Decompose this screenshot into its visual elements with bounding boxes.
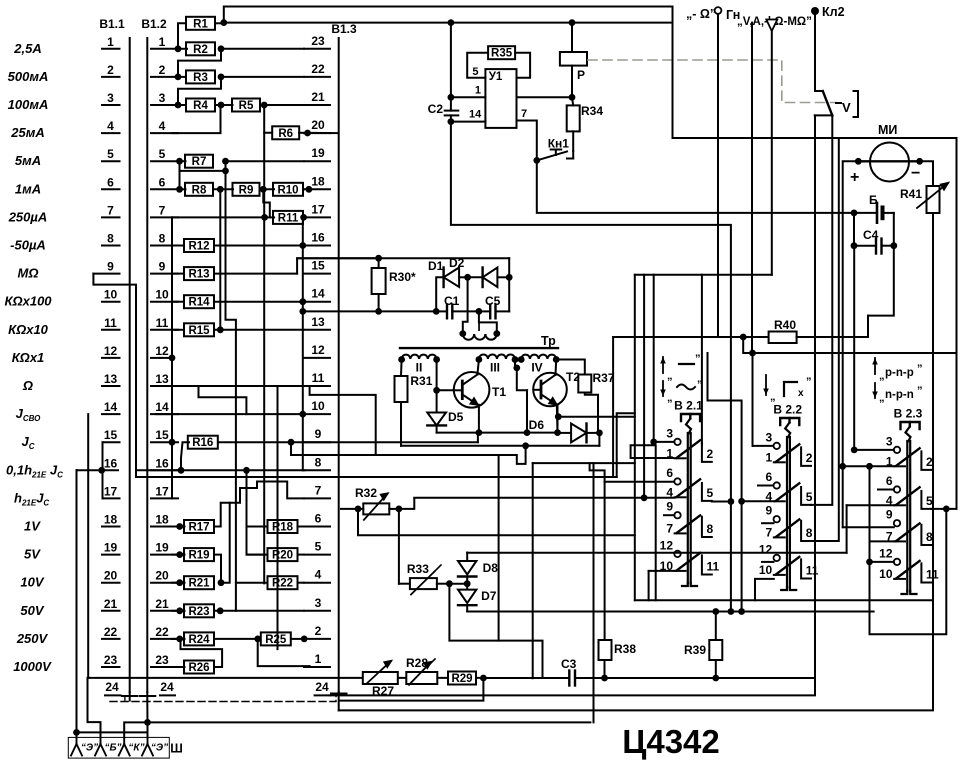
winding II bbox=[398, 355, 440, 375]
wire Б column down bbox=[853, 246, 855, 451]
svg-text:22: 22 bbox=[311, 62, 325, 76]
terminal -Ω Гн bbox=[686, 7, 740, 337]
wire R16 left bend bbox=[178, 442, 189, 473]
switch B1 linkage dashed bbox=[110, 694, 336, 702]
svg-text:“Б”: “Б” bbox=[104, 743, 121, 754]
wire fork2 feed bbox=[88, 678, 101, 738]
svg-text:+: + bbox=[850, 169, 859, 186]
wire B2.3 pin8 link bbox=[931, 544, 933, 546]
wire R11 down bbox=[302, 217, 304, 245]
svg-text:7: 7 bbox=[766, 525, 773, 539]
svg-text:11: 11 bbox=[312, 371, 325, 385]
svg-text:”: ” bbox=[695, 353, 701, 365]
wire V6 long bbox=[263, 133, 265, 584]
connector Ш bbox=[68, 737, 182, 758]
svg-text:D1: D1 bbox=[428, 259, 444, 273]
resistor R1 bbox=[178, 17, 224, 49]
wire R10-R11 gap bbox=[265, 216, 274, 218]
svg-text:21: 21 bbox=[104, 597, 118, 611]
svg-text:Ш: Ш bbox=[170, 742, 183, 756]
wire R5 to R6 bbox=[264, 105, 272, 133]
wire branch pin8 bbox=[673, 138, 957, 541]
svg-text:3: 3 bbox=[107, 91, 114, 105]
svg-text:15: 15 bbox=[155, 428, 169, 442]
wire V1 long bbox=[219, 189, 221, 329]
wire B2.2 pin4 feed bbox=[708, 353, 774, 615]
svg-text:R35: R35 bbox=[491, 48, 513, 60]
svg-text:21: 21 bbox=[311, 90, 325, 104]
resistor R10 bbox=[273, 183, 312, 197]
wire R13 to R30 top bbox=[297, 258, 379, 273]
svg-text:11: 11 bbox=[104, 316, 117, 330]
svg-text:5мА: 5мА bbox=[15, 153, 41, 168]
svg-text:8: 8 bbox=[159, 232, 166, 246]
wire x613 down bbox=[612, 337, 614, 477]
resistor R40 bbox=[613, 316, 868, 343]
svg-text:D2: D2 bbox=[449, 256, 465, 270]
resistor R41 bbox=[900, 183, 948, 213]
svg-text:Тр: Тр bbox=[541, 334, 556, 348]
svg-text:„: „ bbox=[667, 392, 673, 404]
capacitor C3 bbox=[561, 657, 815, 686]
wire line-A bbox=[437, 429, 561, 436]
wire II right down bbox=[436, 360, 438, 391]
svg-text:18: 18 bbox=[155, 513, 169, 527]
svg-text:11: 11 bbox=[156, 316, 169, 330]
wire R32 line bbox=[414, 275, 674, 501]
wire У1 pin7 out bbox=[517, 121, 541, 164]
svg-text:2: 2 bbox=[315, 624, 322, 638]
svg-text:9: 9 bbox=[315, 427, 322, 441]
IC У1 bbox=[469, 66, 527, 128]
svg-text:R17: R17 bbox=[188, 522, 209, 534]
wire battery right bbox=[890, 213, 897, 249]
svg-text:”: ” bbox=[917, 385, 923, 397]
svg-text:9: 9 bbox=[666, 500, 673, 514]
meter МИ bbox=[850, 123, 923, 186]
svg-text:13: 13 bbox=[311, 315, 325, 329]
wire row16 line bbox=[77, 467, 119, 474]
svg-text:23: 23 bbox=[104, 653, 118, 667]
resistor R22 bbox=[236, 576, 304, 590]
svg-text:КΩх100: КΩх100 bbox=[4, 294, 52, 309]
svg-text:Р: Р bbox=[577, 68, 585, 82]
svg-text:50V: 50V bbox=[20, 603, 44, 618]
svg-text:5: 5 bbox=[707, 486, 714, 500]
svg-text:8: 8 bbox=[315, 455, 322, 469]
svg-text:23: 23 bbox=[155, 653, 169, 667]
svg-text:2: 2 bbox=[107, 63, 114, 77]
svg-text:10: 10 bbox=[155, 288, 169, 302]
svg-text:500мА: 500мА bbox=[8, 69, 49, 84]
switch bank B2.3 bbox=[879, 407, 939, 595]
svg-text:3: 3 bbox=[886, 434, 893, 448]
wire switch out bbox=[811, 115, 832, 505]
svg-text:12: 12 bbox=[311, 343, 325, 357]
svg-text:13: 13 bbox=[104, 372, 118, 386]
svg-text:6: 6 bbox=[107, 175, 114, 189]
svg-text:20: 20 bbox=[311, 118, 325, 132]
wire IV to R37 bbox=[556, 360, 585, 375]
svg-text:12: 12 bbox=[660, 538, 674, 552]
resistor R39 bbox=[684, 608, 722, 678]
svg-text:11: 11 bbox=[707, 559, 720, 573]
svg-text:R31: R31 bbox=[410, 374, 432, 388]
svg-text:10V: 10V bbox=[20, 575, 44, 590]
svg-text:В1.1: В1.1 bbox=[99, 17, 125, 31]
svg-text:8: 8 bbox=[707, 522, 714, 536]
svg-text:МΩ: МΩ bbox=[18, 266, 39, 281]
svg-text:I: I bbox=[477, 320, 480, 334]
svg-text:R26: R26 bbox=[188, 662, 209, 674]
svg-text:5: 5 bbox=[926, 494, 933, 508]
svg-text:2: 2 bbox=[806, 451, 813, 465]
svg-text:12: 12 bbox=[104, 344, 118, 358]
svg-text:R18: R18 bbox=[272, 522, 294, 534]
wire B2.2 pin10 hook bbox=[755, 579, 774, 600]
wire B2.1 pin10 bbox=[649, 571, 675, 600]
rotary switch B1.1 bbox=[93, 17, 137, 701]
label Ц4342 bbox=[622, 723, 720, 760]
svg-text:R34: R34 bbox=[581, 104, 603, 118]
capacitor C4 bbox=[851, 213, 894, 254]
wire row14 line bbox=[156, 411, 306, 418]
svg-text:R8: R8 bbox=[192, 184, 207, 196]
svg-text:D5: D5 bbox=[448, 410, 464, 424]
wire R2 jog bbox=[178, 49, 221, 77]
resistor R12 bbox=[172, 239, 306, 253]
svg-text:Ц4342: Ц4342 bbox=[622, 723, 720, 760]
svg-text:7: 7 bbox=[521, 108, 527, 120]
svg-text:КΩх10: КΩх10 bbox=[8, 322, 49, 337]
svg-text:14: 14 bbox=[104, 400, 118, 414]
wire B1.3 bottom bus bbox=[339, 214, 933, 711]
svg-text:17: 17 bbox=[311, 202, 325, 216]
resistor R14 bbox=[172, 295, 306, 309]
resistor R21 bbox=[172, 576, 224, 590]
svg-text:16: 16 bbox=[311, 231, 325, 245]
svg-text:24: 24 bbox=[105, 680, 119, 694]
wire R20 left riser bbox=[243, 467, 267, 555]
wire R38 riser bbox=[604, 482, 606, 640]
resistor R30* bbox=[372, 258, 416, 315]
wire pin7 down bbox=[171, 217, 173, 498]
wire У1 pin1 bbox=[451, 96, 486, 98]
svg-text:D6: D6 bbox=[529, 418, 545, 432]
wire R40 branch bbox=[743, 337, 756, 356]
svg-text:D7: D7 bbox=[481, 589, 497, 603]
winding I bbox=[459, 320, 500, 340]
node III-IV tap bbox=[513, 360, 520, 372]
resistor R13 bbox=[172, 267, 297, 281]
wire mid vertical x277 bbox=[277, 386, 279, 649]
button Кн1 bbox=[537, 137, 573, 161]
wire VA line bbox=[751, 23, 753, 353]
svg-text:6: 6 bbox=[159, 175, 166, 189]
svg-text:R25: R25 bbox=[265, 634, 287, 646]
wire D1D2 to winding I bbox=[463, 277, 468, 333]
svg-text:7: 7 bbox=[315, 483, 322, 497]
wire row17 hook bbox=[102, 470, 104, 498]
svg-text:„: „ bbox=[770, 391, 776, 403]
wire R7L-R8L bbox=[179, 161, 181, 189]
resistor R7 bbox=[176, 155, 304, 169]
wire row15 hook bbox=[102, 442, 104, 470]
svg-text:19: 19 bbox=[311, 146, 325, 160]
resistor R23 bbox=[172, 604, 304, 618]
svg-text:R20: R20 bbox=[272, 550, 293, 562]
svg-text:R1: R1 bbox=[193, 18, 208, 30]
wire У1 right to R34 bbox=[517, 94, 576, 101]
svg-text:11: 11 bbox=[806, 563, 819, 577]
svg-text:х: х bbox=[798, 388, 804, 399]
svg-text:R32: R32 bbox=[355, 486, 377, 500]
svg-text:R9: R9 bbox=[239, 184, 254, 196]
svg-text:C3: C3 bbox=[561, 657, 577, 671]
wire R17 jog bbox=[214, 482, 304, 527]
svg-text:6: 6 bbox=[666, 466, 673, 480]
svg-text:R14: R14 bbox=[188, 297, 210, 309]
resistor R11 bbox=[172, 211, 307, 225]
wire D8 top line bbox=[467, 505, 846, 553]
wire top corner bbox=[572, 7, 673, 23]
svg-text:10: 10 bbox=[759, 563, 773, 577]
resistor R2 bbox=[175, 42, 304, 56]
svg-text:R15: R15 bbox=[188, 325, 210, 337]
resistor R9 bbox=[233, 183, 267, 197]
wire R32 feed bbox=[341, 508, 358, 510]
svg-text:1: 1 bbox=[766, 450, 773, 464]
capacitor C1 bbox=[433, 294, 482, 318]
svg-text:R22: R22 bbox=[272, 578, 293, 590]
svg-text:8: 8 bbox=[926, 530, 933, 544]
wire line-B bbox=[401, 433, 599, 449]
wire tap down bbox=[517, 368, 527, 390]
resistor R28 bbox=[406, 656, 437, 685]
resistor R4 bbox=[175, 99, 225, 113]
wire R32 left down bbox=[358, 509, 635, 535]
svg-text:19: 19 bbox=[155, 541, 169, 555]
resistor R5 bbox=[232, 99, 304, 113]
wire R21 riser bbox=[221, 503, 230, 583]
wire fork1 drop bbox=[73, 470, 80, 738]
wire R32 jog bbox=[399, 498, 414, 509]
svg-text:II: II bbox=[416, 361, 423, 375]
svg-text:1V: 1V bbox=[24, 519, 41, 534]
resistor R27 bbox=[363, 661, 398, 698]
wire R29 hook bbox=[339, 678, 483, 701]
winding III bbox=[476, 354, 519, 374]
wire bus y722 bbox=[148, 721, 591, 723]
relay linkage dashed bbox=[588, 60, 836, 103]
svg-text:R27: R27 bbox=[372, 684, 394, 698]
svg-text:1: 1 bbox=[315, 652, 322, 666]
svg-text:5: 5 bbox=[159, 147, 166, 161]
svg-text:4: 4 bbox=[315, 568, 322, 582]
svg-text:12: 12 bbox=[759, 542, 773, 556]
wire B1.2 bus to fork4 bbox=[144, 701, 151, 738]
svg-text:11: 11 bbox=[926, 567, 939, 581]
relay P bbox=[560, 23, 587, 98]
wire y611 bus bbox=[467, 611, 873, 613]
svg-text:9: 9 bbox=[107, 260, 114, 274]
resistor R29 bbox=[448, 672, 487, 686]
svg-text:14: 14 bbox=[469, 109, 482, 121]
svg-text:6: 6 bbox=[766, 470, 773, 484]
node below R7 bbox=[180, 161, 229, 174]
resistor R17 bbox=[172, 520, 214, 534]
svg-text:D8: D8 bbox=[483, 561, 499, 575]
battery Б bbox=[851, 193, 894, 223]
svg-text:15: 15 bbox=[104, 428, 118, 442]
wire row13 line bbox=[151, 385, 304, 387]
svg-text:−: − bbox=[911, 165, 920, 182]
wire pin4 up bbox=[172, 105, 221, 133]
resistor R26 bbox=[168, 661, 214, 675]
wire R37 bottom jog bbox=[585, 393, 598, 433]
wire R8-R9 bbox=[213, 188, 233, 190]
svg-text:2: 2 bbox=[159, 63, 166, 77]
svg-text:R10: R10 bbox=[277, 184, 298, 196]
switch bank B2.2 bbox=[759, 403, 819, 591]
wire B2.3 pin9 stub bbox=[843, 526, 894, 528]
diode D6 bbox=[529, 418, 603, 442]
svg-text:p-n-p: p-n-p bbox=[885, 367, 914, 379]
capacitor C5 bbox=[479, 277, 509, 318]
diode D7 bbox=[458, 584, 497, 612]
svg-text:21: 21 bbox=[155, 597, 169, 611]
svg-text:24: 24 bbox=[315, 680, 329, 694]
node R30 bottom-left bbox=[299, 308, 306, 315]
svg-text:R37: R37 bbox=[593, 371, 615, 385]
svg-text:1мА: 1мА bbox=[15, 181, 41, 196]
wire D7 branch vert bbox=[498, 455, 500, 641]
svg-text:IV: IV bbox=[531, 361, 542, 375]
wire B2.1 pin3 feed bbox=[650, 275, 674, 446]
svg-text:5: 5 bbox=[472, 66, 478, 78]
wire y600 bus bbox=[635, 599, 933, 601]
wire МΩ row9 hook bbox=[93, 274, 616, 477]
wire y353 to B2.3 pin5 bbox=[753, 352, 957, 354]
wire Кн1 down bbox=[537, 160, 854, 213]
diode D5 bbox=[427, 390, 463, 432]
svg-text:У1: У1 bbox=[489, 71, 503, 83]
svg-text:В 2.2: В 2.2 bbox=[773, 403, 802, 417]
svg-text:24: 24 bbox=[160, 680, 174, 694]
diode D8 bbox=[458, 553, 498, 584]
resistor R16 bbox=[169, 433, 478, 450]
resistor R33 bbox=[399, 509, 453, 595]
svg-text:2: 2 bbox=[707, 447, 714, 461]
svg-text:3: 3 bbox=[766, 430, 773, 444]
svg-text:1000V: 1000V bbox=[13, 659, 52, 674]
svg-text:19: 19 bbox=[104, 541, 118, 555]
resistor R8 bbox=[176, 183, 224, 197]
svg-text:5V: 5V bbox=[24, 547, 41, 562]
svg-text:17: 17 bbox=[104, 484, 118, 498]
svg-text:„: „ bbox=[879, 370, 885, 382]
wire row16 to Ш bbox=[76, 470, 78, 732]
svg-text:23: 23 bbox=[311, 34, 325, 48]
svg-text:R24: R24 bbox=[188, 634, 210, 646]
wire B2.3 pin3 feed bbox=[851, 447, 894, 454]
icon B2.1 DC/AC bbox=[660, 353, 702, 404]
svg-text:R21: R21 bbox=[188, 578, 210, 590]
svg-text:T1: T1 bbox=[492, 385, 506, 399]
wire B2.3 pin1 feed bbox=[843, 465, 894, 467]
svg-text:C2: C2 bbox=[428, 102, 444, 116]
svg-text:R16: R16 bbox=[192, 437, 213, 449]
svg-text:10: 10 bbox=[104, 288, 118, 302]
wire B2.3 pin12 bbox=[866, 559, 894, 566]
svg-text:III: III bbox=[490, 361, 500, 375]
resistor R38 bbox=[599, 640, 637, 678]
transformer Тр core bbox=[400, 334, 558, 348]
svg-text:5: 5 bbox=[806, 490, 813, 504]
svg-text:1: 1 bbox=[107, 35, 114, 49]
svg-text:3: 3 bbox=[666, 426, 673, 440]
resistor R37 bbox=[578, 371, 615, 393]
wire fork3 feed bbox=[124, 722, 147, 737]
svg-text:5: 5 bbox=[107, 147, 114, 161]
svg-text:КΩх1: КΩх1 bbox=[12, 350, 45, 365]
svg-text:R23: R23 bbox=[188, 606, 209, 618]
wire B2.3 pin11 path bbox=[870, 509, 947, 634]
svg-text:20: 20 bbox=[104, 569, 118, 583]
svg-text:8: 8 bbox=[806, 526, 813, 540]
wire R9-R10 bbox=[260, 188, 275, 190]
transistor T2 bbox=[533, 360, 580, 433]
svg-text:R38: R38 bbox=[614, 642, 636, 656]
svg-text:R12: R12 bbox=[188, 241, 209, 253]
wire B2.2 pin3 feed bbox=[753, 445, 774, 447]
wire kΩМΩ staircase bbox=[617, 275, 635, 601]
svg-text:3: 3 bbox=[315, 596, 322, 610]
svg-text:C5: C5 bbox=[485, 294, 501, 308]
svg-text:В1.2: В1.2 bbox=[141, 17, 167, 31]
wire R33 down path bbox=[449, 584, 542, 678]
diode D2 bbox=[449, 256, 513, 287]
svg-text:100мА: 100мА bbox=[8, 97, 49, 112]
wire R30 bottom line bbox=[303, 310, 436, 312]
icon B2.2 Гх bbox=[763, 375, 811, 403]
wire B2.1 pin6 bbox=[590, 463, 674, 482]
resistor R3 bbox=[175, 70, 304, 84]
wire row16 R area bbox=[136, 469, 302, 471]
svg-text:„- Ω”: „- Ω” bbox=[686, 7, 716, 21]
wire C4 right down bbox=[868, 246, 894, 316]
svg-text:Ω: Ω bbox=[22, 378, 33, 393]
resistor R15 bbox=[172, 323, 304, 337]
svg-text:8: 8 bbox=[107, 232, 114, 246]
node R1 right bbox=[220, 7, 672, 27]
svg-text:“Э”: “Э” bbox=[81, 743, 98, 754]
svg-text:R5: R5 bbox=[239, 100, 254, 112]
svg-text:R11: R11 bbox=[278, 212, 299, 224]
svg-text:25мА: 25мА bbox=[10, 125, 44, 140]
label V,A,-kΩ-МΩ bbox=[737, 16, 812, 28]
node D1-D2 bbox=[464, 274, 471, 281]
svg-text:”: ” bbox=[697, 379, 703, 391]
terminal kΩ-МΩ plug bbox=[766, 20, 777, 275]
svg-text:9: 9 bbox=[766, 504, 773, 518]
wire emitter vert bbox=[557, 405, 559, 433]
svg-text:-50µА: -50µА bbox=[10, 238, 46, 253]
wire base bus y678 bbox=[88, 677, 484, 679]
svg-text:R13: R13 bbox=[188, 269, 209, 281]
resistor R25 bbox=[254, 632, 307, 646]
wire R30 top line bbox=[297, 255, 509, 262]
